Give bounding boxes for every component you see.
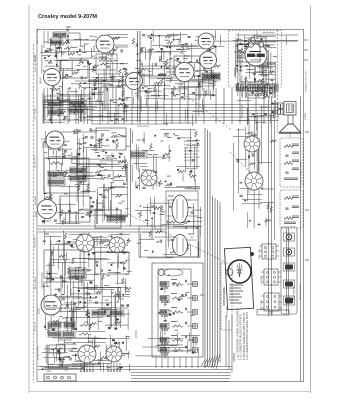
value label (71, 348, 76, 350)
wire (98, 47, 113, 49)
wire (288, 228, 290, 313)
wire (106, 62, 128, 64)
resistor (170, 251, 179, 253)
tuner resistor R4 (172, 325, 183, 328)
junction dot (63, 359, 65, 361)
det coil winding row 2 (69, 274, 86, 279)
wire (71, 83, 109, 85)
wire (250, 90, 266, 92)
wire (209, 43, 211, 57)
resistor (166, 59, 168, 66)
capacitor (168, 220, 169, 223)
wire (274, 61, 276, 98)
oscillator adjust panel (221, 263, 232, 330)
label DEFL YOKE (259, 248, 261, 259)
wire (165, 114, 167, 126)
svg-text:AUDIO OUTPUT: AUDIO OUTPUT (241, 45, 244, 62)
component body (177, 138, 180, 139)
wire (48, 148, 72, 150)
wire (79, 247, 107, 249)
wire (117, 237, 119, 268)
wire (57, 109, 94, 111)
component body (68, 210, 71, 211)
label 6BA6 (39, 77, 43, 84)
value label (196, 94, 200, 96)
wire (255, 41, 276, 43)
value label (78, 54, 81, 56)
resistor (140, 47, 142, 54)
wire (120, 287, 122, 328)
component body (102, 158, 104, 159)
wire (110, 182, 112, 218)
value label (52, 74, 57, 76)
wire (179, 78, 207, 80)
value label (135, 92, 139, 94)
value label (53, 235, 56, 237)
value label (260, 56, 264, 58)
wire (108, 272, 121, 274)
component body (192, 351, 195, 353)
cable bundle wire (212, 196, 214, 367)
wire (167, 227, 198, 229)
value label (76, 64, 80, 66)
resistor (118, 161, 125, 163)
wire (253, 179, 255, 228)
capacitor (122, 239, 123, 242)
value label (159, 56, 162, 58)
value label (72, 156, 77, 158)
wire (44, 314, 46, 330)
wire (47, 31, 49, 44)
wire (88, 338, 131, 340)
label ANT COIL (34, 54, 37, 62)
value label (77, 267, 81, 269)
wire (71, 106, 98, 108)
B+ bus wire (90, 116, 279, 118)
component body (244, 46, 247, 47)
wire (43, 99, 69, 101)
wire (168, 200, 170, 234)
value label (62, 100, 65, 102)
component body (59, 240, 61, 242)
wire (212, 70, 214, 95)
wire (81, 208, 106, 210)
component body (210, 39, 212, 41)
tuner resistor R2 (172, 297, 183, 300)
wire (139, 239, 154, 241)
component body (82, 98, 84, 99)
capacitor (63, 156, 66, 157)
wire (161, 52, 163, 60)
wire (47, 88, 49, 118)
value label (88, 63, 92, 65)
junction dot (120, 262, 122, 264)
wire (137, 87, 139, 100)
value label (125, 97, 129, 99)
label audio output (241, 45, 244, 62)
value label (146, 220, 149, 222)
wire (111, 152, 113, 169)
resistor ladder row 1 (48, 322, 92, 328)
wire (264, 85, 266, 96)
junction dot (88, 316, 90, 318)
wire (142, 65, 181, 67)
component body (82, 62, 83, 64)
wire (90, 130, 109, 132)
osc coil box (60, 196, 90, 222)
tuner switch contact 6 (193, 348, 198, 353)
capacitor (266, 94, 267, 97)
wire (97, 74, 99, 100)
socket pin lead (92, 363, 94, 372)
wire (96, 199, 98, 224)
component body (90, 296, 91, 298)
component body (160, 288, 163, 290)
value label (125, 273, 128, 275)
capacitor (65, 116, 66, 119)
wire (87, 106, 89, 124)
component body (206, 71, 208, 73)
resistor (169, 221, 177, 223)
tube V16 socket (245, 172, 264, 191)
wire (173, 226, 202, 228)
wire (113, 43, 115, 55)
avc box (95, 252, 129, 274)
tube V5 6BA6 IF (199, 51, 217, 69)
wire (166, 80, 200, 82)
wire (84, 362, 86, 372)
component body (90, 197, 93, 198)
capacitor (57, 98, 60, 99)
value label (62, 281, 67, 283)
wire (258, 161, 271, 163)
wire (71, 311, 73, 330)
value label (208, 94, 212, 96)
resistor (171, 94, 178, 96)
junction dot (79, 148, 81, 150)
capacitor (119, 154, 122, 155)
wire (173, 33, 175, 40)
capacitor (188, 36, 191, 37)
value label (106, 177, 109, 179)
resistor (104, 189, 111, 191)
wire (123, 107, 125, 122)
value label (211, 42, 214, 44)
component body (84, 77, 86, 78)
bottom bus wire (38, 366, 232, 368)
yoke circuits panel (281, 227, 297, 314)
wire (187, 339, 193, 341)
value label (102, 197, 107, 199)
wire (223, 88, 225, 124)
wire (77, 131, 79, 173)
value label (74, 119, 77, 121)
wire (118, 313, 131, 315)
wire (88, 258, 110, 260)
wire (249, 115, 264, 117)
svg-text:OSC SECTION: OSC SECTION (35, 155, 37, 168)
capacitor in ratio det (106, 66, 109, 67)
tube V17 socket (78, 345, 97, 364)
wire (246, 37, 266, 39)
wire (47, 367, 78, 369)
resistor (268, 71, 275, 73)
wire (116, 207, 118, 224)
dashed lead (120, 210, 225, 262)
value label (162, 211, 165, 213)
value label (89, 35, 93, 37)
component body (44, 193, 47, 194)
wire (260, 38, 262, 45)
value label (204, 71, 207, 73)
component body (116, 319, 119, 321)
value label (84, 43, 89, 45)
wire (48, 264, 50, 272)
value label (180, 52, 184, 54)
component body (262, 188, 263, 190)
capacitor (197, 75, 200, 76)
wire (138, 168, 140, 190)
value label (63, 144, 67, 146)
resistor (176, 67, 183, 69)
wire (125, 159, 127, 176)
capacitor (267, 46, 270, 47)
value label (158, 183, 163, 185)
value label (140, 63, 143, 65)
wire (184, 70, 212, 72)
wire (184, 87, 186, 100)
wire (145, 181, 159, 183)
capacitor (184, 222, 187, 223)
value label (248, 81, 252, 83)
value label (51, 306, 56, 308)
wire (195, 39, 214, 41)
capacitor (61, 359, 62, 362)
wire (77, 360, 115, 362)
wire (65, 341, 106, 343)
wire (198, 242, 200, 259)
value label (179, 84, 183, 86)
wire (73, 311, 75, 330)
capacitor (151, 206, 154, 207)
label 6AL5 (121, 82, 125, 89)
wire (177, 166, 201, 168)
component body (63, 119, 64, 121)
wire (46, 264, 54, 266)
video box (174, 56, 200, 76)
resistor (270, 140, 277, 142)
wire (182, 174, 184, 182)
wire (110, 200, 112, 209)
value label (59, 316, 62, 318)
resistor (284, 145, 293, 148)
wire (241, 105, 243, 118)
capacitor (160, 74, 163, 75)
resistor (263, 45, 270, 47)
capacitor (62, 280, 65, 281)
junction dot (170, 58, 172, 60)
wire (66, 241, 88, 243)
wire (190, 244, 192, 256)
component body (122, 342, 124, 344)
component body (140, 206, 141, 207)
wire (84, 210, 104, 212)
component body (172, 283, 175, 284)
wire (192, 336, 194, 348)
junction dot (78, 69, 80, 71)
tube V15 socket (244, 136, 261, 153)
wire (147, 156, 171, 158)
resistor (154, 82, 161, 84)
wire (105, 43, 107, 81)
wire (43, 100, 54, 102)
value label (142, 47, 145, 49)
value label (183, 244, 186, 246)
wire (155, 101, 157, 112)
value label (138, 212, 141, 214)
capacitor (192, 160, 195, 161)
wire (60, 163, 62, 172)
value label (239, 70, 243, 72)
svg-text:AM RADIO: AM RADIO (34, 195, 37, 205)
value label (91, 55, 95, 57)
wire (214, 31, 216, 40)
wire (77, 142, 87, 144)
svg-text:4. ALL READINGS WITH NO SIGNAL: 4. ALL READINGS WITH NO SIGNAL INPUT (246, 311, 249, 360)
speaker magnet (284, 102, 296, 116)
wire (57, 334, 59, 342)
deflection terminal strip 3 (264, 293, 279, 311)
component body (246, 65, 248, 67)
value label (110, 178, 114, 180)
wire (42, 352, 68, 354)
wire (80, 95, 82, 122)
value label (69, 350, 74, 352)
wire (157, 94, 168, 96)
value label (86, 98, 91, 100)
wire (237, 55, 250, 57)
tube V13 socket (76, 234, 95, 253)
value label (256, 41, 259, 43)
wire (48, 144, 50, 160)
wire (161, 357, 163, 368)
value label (240, 39, 243, 41)
wire (43, 102, 73, 104)
value label (110, 100, 113, 102)
component body (94, 150, 97, 151)
wire (58, 245, 60, 270)
tuner coil L2 (160, 296, 169, 303)
wire (60, 339, 73, 341)
wire (249, 52, 251, 78)
output transformer T8 winding (202, 73, 220, 80)
wire (83, 286, 127, 288)
wire (45, 345, 47, 364)
label AM RADIO (34, 195, 37, 205)
wire (176, 49, 190, 51)
wire (164, 353, 166, 360)
wire (198, 100, 200, 116)
junction dot (240, 66, 242, 68)
label ANT (36, 27, 39, 44)
capacitor (108, 175, 111, 176)
wire (135, 210, 151, 212)
resistor (132, 38, 134, 45)
value label (115, 272, 120, 274)
value label (250, 44, 253, 46)
resistor (270, 206, 272, 213)
component body (160, 48, 163, 50)
junction dot (180, 69, 182, 71)
label 6SQ7 (41, 141, 45, 148)
value label (99, 91, 104, 93)
schematic right inner border (300, 96, 302, 381)
svg-text:OSC ADJUST: OSC ADJUST (226, 305, 229, 318)
wire (256, 62, 275, 64)
wire (187, 342, 189, 354)
resistor (245, 181, 252, 183)
junction dot (151, 34, 153, 36)
socket pin lead (86, 363, 88, 372)
wire (75, 215, 77, 224)
wire (124, 156, 126, 164)
component body (209, 49, 212, 51)
wire (49, 259, 70, 261)
value label (73, 311, 76, 313)
wire (112, 45, 114, 54)
wire (88, 63, 90, 88)
wire (286, 228, 288, 313)
wire (75, 353, 77, 362)
wire (257, 84, 259, 98)
wire (43, 104, 86, 106)
wire (178, 85, 203, 87)
resistor (161, 78, 163, 85)
wire (57, 343, 77, 345)
wire (181, 334, 200, 336)
wire (103, 69, 105, 111)
component body (178, 299, 181, 301)
component body (112, 339, 115, 341)
component body (195, 140, 197, 141)
component body (106, 304, 108, 306)
value label (108, 235, 112, 237)
wire (75, 297, 96, 299)
wire (105, 84, 107, 111)
wire (261, 281, 264, 283)
wire (274, 85, 276, 99)
picture tube face (228, 260, 251, 283)
wire (72, 362, 111, 364)
component body (50, 308, 52, 309)
wire (163, 65, 165, 85)
tuner switch contact 2 (193, 296, 198, 301)
svg-text:5Y3GT RECT: 5Y3GT RECT (184, 160, 198, 162)
svg-text:6AL5 RATIO DET: 6AL5 RATIO DET (184, 156, 201, 159)
wire (239, 50, 241, 66)
wire (262, 44, 275, 46)
tube V19 6AU6 video IF (174, 62, 194, 82)
value label (71, 246, 75, 248)
wire (164, 187, 192, 189)
wire (162, 44, 198, 46)
wire (109, 311, 111, 331)
wire (118, 287, 120, 302)
resistor (64, 99, 70, 101)
wire (193, 203, 195, 233)
wire (185, 148, 187, 173)
label 6SK7 (34, 210, 38, 217)
